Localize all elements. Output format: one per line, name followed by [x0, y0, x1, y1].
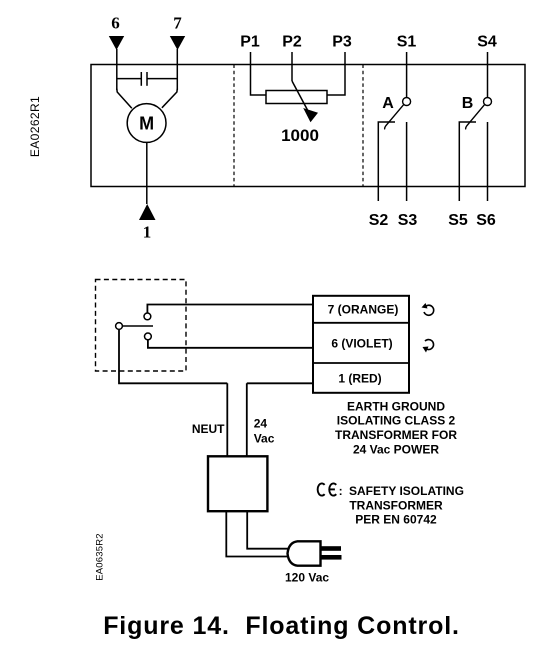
- capacitor C1 right lead: [147, 78, 177, 80]
- wire S3: [406, 122, 408, 201]
- wire 24 Vac vertical: [246, 383, 248, 456]
- svg-text::: :: [339, 484, 343, 498]
- svg-text:ISOLATING CLASS 2: ISOLATING CLASS 2: [337, 414, 456, 428]
- terminal block box: [313, 296, 409, 393]
- svg-text:S1: S1: [397, 34, 417, 51]
- wire common to NEUT: [119, 330, 227, 384]
- svg-text:EA0635R2: EA0635R2: [95, 533, 106, 581]
- svg-text:24: 24: [254, 417, 268, 431]
- wire P1: [251, 52, 267, 95]
- svg-text:S2: S2: [369, 212, 389, 229]
- svg-text:7 (ORANGE): 7 (ORANGE): [328, 303, 399, 317]
- wire 24 Vac to 1 (RED): [247, 382, 313, 384]
- wire terminal 7: [176, 49, 178, 90]
- plug prong lower: [321, 555, 342, 560]
- svg-text:P3: P3: [332, 34, 352, 51]
- wire motor to terminal 1: [146, 143, 148, 205]
- svg-text:SAFETY ISOLATING: SAFETY ISOLATING: [349, 484, 464, 498]
- contact circle common: [116, 323, 123, 330]
- potentiometer body 1000 ohm: [266, 91, 327, 104]
- transformer T1 box: [208, 456, 267, 511]
- wire P3: [327, 52, 345, 95]
- svg-text:7: 7: [173, 14, 182, 33]
- controller dashed box: [96, 280, 187, 372]
- svg-text:B: B: [462, 95, 474, 112]
- capacitor C1 plates: [140, 72, 142, 86]
- plug body: [288, 541, 321, 565]
- svg-text:S5: S5: [448, 212, 468, 229]
- svg-text:S6: S6: [476, 212, 496, 229]
- svg-text:1 (RED): 1 (RED): [338, 372, 381, 386]
- dashed section divider right: [362, 65, 364, 187]
- main actuator box: [91, 65, 525, 187]
- switch B blade: [466, 105, 485, 130]
- wire terminal 6: [116, 49, 118, 90]
- svg-text:Figure 14. Floating Control.: Figure 14. Floating Control.: [103, 612, 460, 640]
- floating switch blade: [123, 325, 153, 327]
- switch A contact circle: [403, 98, 411, 106]
- terminal block row divider 2: [313, 362, 409, 364]
- svg-text:TRANSFORMER: TRANSFORMER: [349, 498, 443, 512]
- svg-text:6 (VIOLET): 6 (VIOLET): [331, 337, 392, 351]
- wire transformer right to plug: [247, 511, 288, 549]
- contact circle lower: [145, 333, 152, 340]
- svg-text:P1: P1: [240, 34, 260, 51]
- terminal block row divider 1: [313, 322, 409, 324]
- wire motor right diagonal: [162, 89, 177, 108]
- wire motor left diagonal: [117, 89, 132, 109]
- wire to 6 (VIOLET): [148, 340, 313, 348]
- wire S2: [378, 122, 395, 201]
- capacitor C1 left lead: [117, 78, 141, 80]
- contact circle upper: [144, 313, 151, 320]
- svg-text:24 Vac POWER: 24 Vac POWER: [353, 442, 439, 456]
- rotation arrow CCW: [424, 305, 434, 315]
- wire S5: [459, 122, 476, 201]
- wire S4: [487, 52, 489, 97]
- wire S1: [406, 52, 408, 97]
- svg-text:TRANSFORMER FOR: TRANSFORMER FOR: [335, 428, 457, 442]
- svg-text:A: A: [382, 95, 394, 112]
- svg-text:P2: P2: [282, 34, 302, 51]
- dashed section divider left: [233, 65, 235, 187]
- switch B contact circle: [484, 98, 492, 106]
- svg-text:120 Vac: 120 Vac: [285, 570, 329, 584]
- potentiometer wiper arrowhead: [303, 108, 318, 122]
- svg-text:Vac: Vac: [254, 432, 275, 446]
- rotation arrow CW: [425, 340, 434, 350]
- wire S6: [487, 122, 489, 201]
- terminal 1 arrow: [139, 204, 156, 220]
- wire NEUT vertical: [226, 383, 228, 456]
- svg-text:1: 1: [143, 223, 152, 242]
- CE mark: [318, 483, 337, 495]
- motor M: [127, 104, 166, 143]
- terminal 7 arrow: [170, 36, 185, 50]
- svg-text:M: M: [139, 114, 154, 134]
- plug prong upper: [321, 546, 342, 551]
- svg-text:NEUT: NEUT: [192, 422, 225, 436]
- switch A blade: [385, 105, 404, 130]
- terminal 6 arrow: [109, 36, 124, 50]
- svg-text:S4: S4: [477, 34, 497, 51]
- wire transformer left to plug: [226, 511, 287, 556]
- potentiometer wiper: [292, 81, 308, 110]
- wire to 7 (ORANGE): [147, 305, 313, 314]
- svg-text:EARTH GROUND: EARTH GROUND: [347, 399, 445, 413]
- svg-text:1000: 1000: [281, 126, 319, 145]
- wire P2: [291, 52, 293, 81]
- svg-text:PER EN 60742: PER EN 60742: [355, 513, 437, 527]
- svg-text:S3: S3: [398, 212, 418, 229]
- svg-text:EA0262R1: EA0262R1: [28, 96, 42, 157]
- svg-text:6: 6: [111, 14, 120, 33]
